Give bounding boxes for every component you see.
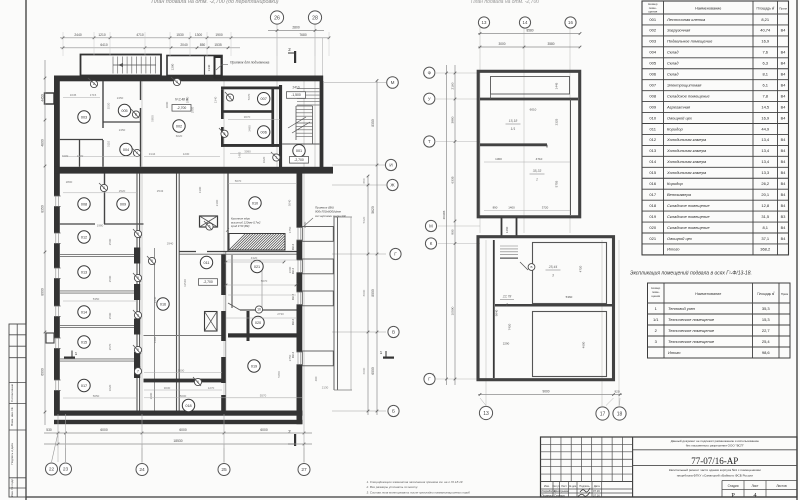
svg-text:005: 005 bbox=[649, 61, 656, 66]
svg-text:Коридор: Коридор bbox=[667, 181, 683, 186]
svg-text:В4: В4 bbox=[781, 29, 786, 33]
svg-text:3030: 3030 bbox=[164, 386, 171, 390]
svg-text:3. Состав пола монтировать по: 3. Состав пола монтировать после проклад… bbox=[367, 490, 471, 494]
svg-text:3: 3 bbox=[552, 274, 554, 278]
svg-text:В4: В4 bbox=[781, 149, 786, 153]
svg-text:5670: 5670 bbox=[247, 93, 251, 100]
svg-text:7: 7 bbox=[137, 369, 139, 373]
svg-text:13: 13 bbox=[482, 20, 487, 25]
svg-text:2940: 2940 bbox=[167, 242, 174, 246]
svg-text:1645: 1645 bbox=[70, 93, 77, 97]
svg-text:В4: В4 bbox=[781, 193, 786, 197]
svg-text:8000: 8000 bbox=[362, 289, 366, 296]
svg-text:Дата: Дата bbox=[594, 484, 600, 488]
svg-text:2450: 2450 bbox=[117, 96, 124, 100]
svg-text:020: 020 bbox=[649, 225, 656, 230]
svg-text:2410: 2410 bbox=[292, 86, 299, 90]
svg-text:20,1: 20,1 bbox=[761, 192, 770, 197]
svg-text:1210: 1210 bbox=[98, 33, 106, 37]
svg-text:3480: 3480 bbox=[248, 125, 252, 132]
svg-text:8350: 8350 bbox=[371, 119, 375, 127]
svg-text:2543: 2543 bbox=[157, 189, 164, 193]
svg-text:Экспликация помещений подвала: Экспликация помещений подвала в осях Г¹-… bbox=[630, 270, 752, 277]
svg-text:23: 23 bbox=[63, 467, 69, 473]
svg-text:015: 015 bbox=[81, 340, 87, 344]
svg-text:1900: 1900 bbox=[215, 33, 223, 37]
svg-text:9000: 9000 bbox=[542, 390, 549, 394]
svg-text:31,5: 31,5 bbox=[761, 214, 770, 219]
svg-text:530: 530 bbox=[46, 428, 52, 432]
svg-text:Б: Б bbox=[392, 409, 395, 414]
svg-text:6,1: 6,1 bbox=[762, 82, 768, 87]
svg-text:пищеблока ФГКУ «Санаторий «Бай: пищеблока ФГКУ «Санаторий «Байкал» ФСБ Р… bbox=[677, 473, 753, 477]
svg-text:13,4: 13,4 bbox=[761, 148, 770, 153]
svg-text:Изм.: Изм. bbox=[544, 484, 550, 488]
svg-text:2300: 2300 bbox=[149, 392, 153, 399]
svg-text:К: К bbox=[430, 241, 433, 246]
svg-text:-2,700: -2,700 bbox=[294, 158, 304, 162]
svg-text:3670: 3670 bbox=[244, 115, 251, 119]
svg-text:Складское помещение: Складское помещение bbox=[667, 214, 710, 219]
svg-text:5755: 5755 bbox=[555, 180, 559, 187]
svg-text:Техническое помещение: Техническое помещение bbox=[668, 317, 715, 322]
svg-text:1020: 1020 bbox=[262, 156, 266, 163]
svg-text:Холодильная камера: Холодильная камера bbox=[666, 159, 707, 164]
svg-text:1400: 1400 bbox=[303, 221, 307, 228]
svg-text:8,1: 8,1 bbox=[762, 72, 768, 77]
svg-text:1230: 1230 bbox=[183, 152, 190, 156]
svg-text:1300: 1300 bbox=[195, 33, 203, 37]
svg-text:В4: В4 bbox=[781, 73, 786, 77]
svg-text:Овощной цех: Овощной цех bbox=[667, 115, 693, 120]
svg-text:1270: 1270 bbox=[208, 386, 215, 390]
svg-text:25,44: 25,44 bbox=[548, 265, 558, 269]
svg-text:4710: 4710 bbox=[536, 157, 543, 161]
svg-text:008: 008 bbox=[649, 93, 656, 98]
svg-text:850: 850 bbox=[200, 43, 206, 47]
svg-text:009: 009 bbox=[649, 104, 656, 109]
svg-text:2160: 2160 bbox=[451, 82, 455, 89]
svg-text:1290: 1290 bbox=[171, 63, 175, 70]
svg-text:014: 014 bbox=[81, 310, 87, 314]
svg-text:Техническое помещение: Техническое помещение bbox=[668, 328, 715, 333]
svg-text:019: 019 bbox=[649, 214, 656, 219]
svg-text:В3: В3 bbox=[781, 215, 786, 219]
svg-text:ОК 2: ОК 2 bbox=[291, 318, 295, 325]
svg-text:Техническое помещение: Техническое помещение bbox=[668, 339, 715, 344]
svg-text:015: 015 bbox=[649, 170, 656, 175]
svg-text:22: 22 bbox=[49, 467, 55, 473]
svg-text:11540: 11540 bbox=[183, 279, 187, 287]
svg-text:007: 007 bbox=[261, 97, 267, 101]
svg-text:003: 003 bbox=[649, 39, 656, 44]
svg-text:Р: Р bbox=[731, 492, 735, 499]
svg-text:1980: 1980 bbox=[97, 224, 104, 228]
svg-text:2: 2 bbox=[505, 303, 508, 307]
svg-text:Холодильная камера: Холодильная камера bbox=[666, 137, 707, 142]
svg-text:14,5: 14,5 bbox=[761, 104, 770, 109]
svg-text:В4: В4 bbox=[781, 171, 786, 175]
svg-text:В4: В4 bbox=[781, 51, 786, 55]
svg-text:020: 020 bbox=[255, 321, 261, 325]
svg-text:-2,700: -2,700 bbox=[177, 106, 187, 110]
svg-text:17: 17 bbox=[600, 411, 606, 417]
svg-text:2500: 2500 bbox=[108, 275, 112, 282]
svg-text:В: В bbox=[392, 330, 395, 335]
svg-text:2190: 2190 bbox=[215, 199, 219, 206]
svg-text:1300: 1300 bbox=[198, 186, 202, 193]
svg-text:Итого: Итого bbox=[667, 247, 680, 252]
svg-text:3110: 3110 bbox=[107, 141, 111, 148]
svg-text:Коридор: Коридор bbox=[667, 126, 683, 131]
svg-text:4800: 4800 bbox=[40, 139, 44, 147]
svg-text:План подвала на отм. -2,700 (д: План подвала на отм. -2,700 (до переплан… bbox=[151, 0, 278, 5]
svg-text:Складское помещение: Складское помещение bbox=[667, 203, 710, 208]
svg-text:У: У bbox=[428, 96, 431, 101]
svg-text:014: 014 bbox=[649, 159, 656, 164]
svg-text:20965: 20965 bbox=[442, 210, 446, 219]
svg-text:6000: 6000 bbox=[371, 367, 375, 375]
svg-text:5600: 5600 bbox=[178, 369, 185, 373]
svg-text:003: 003 bbox=[81, 115, 87, 119]
svg-text:2. Все размеры уточнять по ме: 2. Все размеры уточнять по месту. bbox=[366, 485, 419, 489]
svg-text:3040: 3040 bbox=[288, 199, 292, 206]
svg-text:001: 001 bbox=[649, 17, 656, 22]
svg-text:2800: 2800 bbox=[292, 26, 300, 30]
svg-text:77-07/16-АР: 77-07/16-АР bbox=[691, 456, 738, 466]
svg-text:2325: 2325 bbox=[555, 118, 559, 125]
svg-text:6000: 6000 bbox=[362, 367, 366, 374]
svg-text:1/1: 1/1 bbox=[653, 317, 659, 322]
svg-text:6010: 6010 bbox=[530, 108, 537, 112]
svg-text:В4: В4 bbox=[781, 160, 786, 164]
svg-text:8350: 8350 bbox=[40, 205, 44, 213]
svg-text:7,6: 7,6 bbox=[762, 50, 768, 55]
svg-text:6000: 6000 bbox=[40, 368, 44, 376]
svg-text:368,2: 368,2 bbox=[760, 247, 771, 252]
svg-text:011: 011 bbox=[650, 126, 657, 131]
svg-text:016: 016 bbox=[160, 302, 166, 306]
svg-text:019: 019 bbox=[251, 364, 257, 368]
svg-text:006: 006 bbox=[649, 72, 656, 77]
svg-text:4710: 4710 bbox=[136, 33, 144, 37]
svg-text:Лист: Лист bbox=[561, 484, 567, 488]
svg-text:Сухинин: Сухинин bbox=[554, 493, 565, 497]
svg-text:Проверил: Проверил bbox=[542, 493, 554, 497]
svg-text:16,9: 16,9 bbox=[761, 115, 770, 120]
svg-text:Складское помещение: Складское помещение bbox=[667, 225, 710, 230]
svg-text:28: 28 bbox=[312, 15, 318, 21]
svg-text:Стадия: Стадия bbox=[728, 484, 739, 488]
svg-text:26,2: 26,2 bbox=[761, 181, 770, 186]
svg-text:3144: 3144 bbox=[149, 152, 156, 156]
svg-text:см чертежи марки КК: см чертежи марки КК bbox=[315, 214, 346, 218]
svg-text:1485: 1485 bbox=[238, 151, 242, 158]
svg-text:Подпись и дата: Подпись и дата bbox=[10, 443, 14, 465]
svg-text:1340: 1340 bbox=[207, 64, 211, 71]
svg-text:Склад: Склад bbox=[667, 50, 679, 55]
svg-text:18: 18 bbox=[617, 411, 623, 417]
svg-text:ОК 2: ОК 2 bbox=[291, 293, 295, 300]
svg-text:016: 016 bbox=[649, 181, 656, 186]
svg-text:5670: 5670 bbox=[235, 179, 242, 183]
svg-text:009: 009 bbox=[120, 202, 126, 206]
svg-text:9840: 9840 bbox=[495, 309, 499, 316]
svg-text:5650: 5650 bbox=[93, 394, 100, 398]
svg-text:Григорьева: Григорьева bbox=[554, 489, 569, 493]
svg-text:1460: 1460 bbox=[505, 226, 509, 233]
svg-text:2130: 2130 bbox=[322, 386, 329, 390]
svg-text:2520: 2520 bbox=[107, 102, 111, 109]
svg-text:Загрузочная: Загрузочная bbox=[667, 28, 691, 33]
svg-text:М: М bbox=[429, 224, 433, 229]
svg-text:Электрощитовая: Электрощитовая bbox=[667, 82, 702, 87]
svg-text:35,33: 35,33 bbox=[533, 169, 542, 173]
svg-text:2440: 2440 bbox=[74, 33, 82, 37]
svg-text:1530: 1530 bbox=[176, 33, 184, 37]
svg-text:8580: 8580 bbox=[526, 29, 533, 33]
svg-text:1535: 1535 bbox=[214, 43, 222, 47]
svg-text:3000: 3000 bbox=[498, 42, 505, 46]
svg-text:16,9: 16,9 bbox=[761, 39, 770, 44]
svg-text:008: 008 bbox=[81, 202, 87, 206]
svg-text:В4: В4 bbox=[781, 116, 786, 120]
svg-text:1000: 1000 bbox=[62, 154, 69, 158]
svg-text:001: 001 bbox=[296, 149, 302, 153]
svg-text:2800: 2800 bbox=[66, 180, 73, 184]
svg-text:7,8: 7,8 bbox=[762, 93, 768, 98]
svg-text:6000: 6000 bbox=[260, 428, 268, 432]
svg-text:2450: 2450 bbox=[119, 128, 126, 132]
svg-text:щения: щения bbox=[648, 9, 657, 13]
svg-text:Листов: Листов bbox=[776, 484, 787, 488]
svg-text:18530: 18530 bbox=[173, 439, 182, 443]
svg-text:5360: 5360 bbox=[566, 295, 573, 299]
svg-text:3090: 3090 bbox=[244, 149, 251, 153]
svg-text:Подвальное помещение: Подвальное помещение bbox=[667, 39, 713, 44]
svg-text:Инв. № подл.: Инв. № подл. bbox=[10, 478, 14, 497]
svg-text:И: И bbox=[389, 163, 392, 168]
svg-text:5570: 5570 bbox=[260, 394, 267, 398]
svg-text:Приямок для подъемника: Приямок для подъемника bbox=[230, 61, 270, 65]
svg-text:щения: щения bbox=[651, 294, 660, 298]
svg-text:План подвала на отм. -2,700: План подвала на отм. -2,700 bbox=[471, 0, 539, 5]
svg-text:880: 880 bbox=[362, 178, 366, 183]
svg-text:017: 017 bbox=[649, 192, 656, 197]
svg-text:13,4: 13,4 bbox=[761, 159, 770, 164]
svg-text:002: 002 bbox=[176, 124, 182, 128]
svg-text:40,74: 40,74 bbox=[760, 28, 771, 33]
svg-text:Подпись: Подпись bbox=[579, 484, 590, 488]
svg-text:018: 018 bbox=[649, 203, 656, 208]
svg-text:10: 10 bbox=[257, 308, 261, 312]
svg-text:25,4: 25,4 bbox=[762, 339, 771, 344]
svg-text:12,8: 12,8 bbox=[761, 203, 770, 208]
svg-text:021: 021 bbox=[254, 265, 260, 269]
svg-text:37,1: 37,1 bbox=[761, 236, 770, 241]
svg-text:3720: 3720 bbox=[542, 206, 549, 210]
svg-text:6,3: 6,3 bbox=[762, 61, 768, 66]
svg-text:1300: 1300 bbox=[495, 157, 502, 161]
svg-text:1715: 1715 bbox=[90, 93, 97, 97]
svg-text:Лист: Лист bbox=[752, 484, 759, 488]
svg-text:ОК 2: ОК 2 bbox=[291, 267, 295, 274]
svg-text:011: 011 bbox=[203, 261, 209, 265]
svg-text:-2,700: -2,700 bbox=[203, 280, 213, 284]
svg-text:4720: 4720 bbox=[579, 265, 583, 272]
svg-text:3580: 3580 bbox=[547, 42, 554, 46]
svg-text:Кол.уч: Кол.уч bbox=[552, 485, 560, 488]
svg-text:2520: 2520 bbox=[119, 189, 126, 193]
svg-text:2750: 2750 bbox=[288, 354, 292, 361]
svg-text:002: 002 bbox=[649, 28, 656, 33]
svg-text:1445: 1445 bbox=[555, 82, 559, 89]
svg-text:13: 13 bbox=[483, 411, 489, 417]
svg-text:26: 26 bbox=[274, 15, 280, 21]
svg-text:М: М bbox=[391, 80, 395, 85]
svg-text:Холодильная камера: Холодильная камера bbox=[666, 148, 707, 153]
svg-text:6000: 6000 bbox=[179, 428, 187, 432]
svg-text:24: 24 bbox=[139, 467, 145, 473]
svg-text:010: 010 bbox=[252, 201, 258, 205]
svg-text:без письменного разрешения ООО: без письменного разрешения ООО "ВСП" bbox=[686, 444, 744, 448]
svg-text:890: 890 bbox=[451, 229, 455, 234]
svg-text:Наименование: Наименование bbox=[695, 292, 721, 296]
svg-text:8,21: 8,21 bbox=[761, 17, 770, 22]
svg-text:5350: 5350 bbox=[93, 297, 100, 301]
svg-text:07.16: 07.16 bbox=[593, 489, 600, 493]
svg-text:22,7: 22,7 bbox=[762, 328, 771, 333]
svg-text:2500: 2500 bbox=[108, 238, 112, 245]
svg-text:2290: 2290 bbox=[503, 342, 510, 346]
svg-text:25: 25 bbox=[221, 467, 227, 473]
svg-text:1. Спецификацию элементов зап: 1. Спецификацию элементов заполнения про… bbox=[367, 480, 463, 484]
svg-text:Лестничная клетка: Лестничная клетка bbox=[666, 17, 706, 22]
svg-text:8000: 8000 bbox=[371, 289, 375, 297]
svg-text:004: 004 bbox=[123, 148, 129, 152]
svg-text:15,18: 15,18 bbox=[509, 119, 518, 123]
svg-text:13,4: 13,4 bbox=[761, 137, 770, 142]
svg-text:1/1: 1/1 bbox=[511, 127, 516, 131]
svg-text:16: 16 bbox=[568, 20, 573, 25]
svg-text:1480: 1480 bbox=[153, 336, 157, 343]
svg-text:7680: 7680 bbox=[299, 33, 307, 37]
svg-text:2600: 2600 bbox=[288, 266, 292, 273]
svg-text:Площадь м: Площадь м bbox=[756, 7, 774, 11]
svg-text:007: 007 bbox=[649, 82, 656, 87]
svg-text:6020: 6020 bbox=[176, 134, 183, 138]
svg-text:В4: В4 bbox=[781, 94, 786, 98]
svg-text:Площадь м: Площадь м bbox=[757, 292, 774, 296]
svg-text:В4: В4 bbox=[781, 226, 786, 230]
svg-text:017: 017 bbox=[81, 384, 87, 388]
svg-text:Складское помещение: Складское помещение bbox=[667, 93, 710, 98]
svg-text:ОК 2: ОК 2 bbox=[291, 243, 295, 250]
svg-text:4600: 4600 bbox=[582, 341, 586, 348]
svg-text:22,78: 22,78 bbox=[502, 295, 512, 299]
svg-text:1300: 1300 bbox=[77, 154, 84, 158]
svg-text:13,3: 13,3 bbox=[761, 170, 770, 175]
svg-text:Прим: Прим bbox=[779, 7, 787, 11]
svg-text:018: 018 bbox=[185, 404, 191, 408]
svg-text:Капитальный ремонт части здани: Капитальный ремонт части здания корпуса … bbox=[669, 468, 761, 472]
svg-text:5850: 5850 bbox=[150, 115, 154, 122]
svg-text:Овощной цех: Овощной цех bbox=[667, 236, 693, 241]
svg-text:6410: 6410 bbox=[100, 43, 108, 47]
svg-text:8000: 8000 bbox=[40, 288, 44, 296]
svg-text:-1,500: -1,500 bbox=[291, 93, 301, 97]
svg-text:В4: В4 bbox=[781, 237, 786, 241]
svg-text:В4: В4 bbox=[781, 83, 786, 87]
svg-text:400: 400 bbox=[314, 376, 318, 381]
svg-text:3000: 3000 bbox=[165, 101, 169, 108]
svg-text:Итого: Итого bbox=[668, 350, 681, 355]
svg-text:1: 1 bbox=[536, 178, 538, 182]
svg-text:Склад: Склад bbox=[667, 72, 679, 77]
svg-text:15,3: 15,3 bbox=[762, 317, 771, 322]
svg-text:Тепловой узел: Тепловой узел bbox=[668, 306, 696, 311]
svg-text:3880: 3880 bbox=[451, 116, 455, 123]
svg-text:1440: 1440 bbox=[153, 296, 157, 303]
svg-text:Данный документ не подлежит ра: Данный документ не подлежит размножению … bbox=[671, 439, 760, 443]
svg-text:Прим: Прим bbox=[781, 292, 788, 296]
svg-text:Агрегатная: Агрегатная bbox=[666, 104, 691, 109]
svg-text:98,6: 98,6 bbox=[762, 350, 771, 355]
svg-text:В4: В4 bbox=[781, 62, 786, 66]
svg-text:6335: 6335 bbox=[451, 176, 455, 183]
svg-text:В4: В4 bbox=[781, 204, 786, 208]
svg-text:010: 010 bbox=[649, 115, 656, 120]
svg-text:3620: 3620 bbox=[108, 384, 112, 391]
svg-text:1900: 1900 bbox=[186, 96, 190, 103]
svg-text:5620: 5620 bbox=[371, 206, 375, 214]
svg-text:44,9: 44,9 bbox=[761, 126, 770, 131]
svg-text:2570: 2570 bbox=[108, 343, 112, 350]
svg-text:В: В bbox=[530, 265, 532, 269]
svg-text:004: 004 bbox=[649, 50, 656, 55]
svg-text:Согласовано: Согласовано bbox=[10, 383, 14, 401]
svg-text:Наименование: Наименование bbox=[695, 7, 721, 11]
svg-text:7420: 7420 bbox=[508, 323, 512, 330]
svg-text:07.16: 07.16 bbox=[593, 493, 600, 497]
svg-text:4450: 4450 bbox=[40, 94, 44, 102]
svg-text:920: 920 bbox=[614, 390, 619, 394]
svg-text:5620: 5620 bbox=[362, 216, 366, 223]
svg-text:1905: 1905 bbox=[191, 106, 195, 113]
svg-text:013: 013 bbox=[81, 270, 87, 274]
svg-text:6000: 6000 bbox=[100, 428, 108, 432]
svg-text:Венткамера: Венткамера bbox=[667, 192, 692, 197]
svg-text:В4: В4 bbox=[781, 138, 786, 142]
svg-text:2730: 2730 bbox=[277, 312, 284, 316]
svg-text:ОК 2: ОК 2 bbox=[291, 351, 295, 358]
svg-text:В4: В4 bbox=[781, 105, 786, 109]
svg-text:27: 27 bbox=[301, 467, 307, 473]
svg-text:012: 012 bbox=[649, 137, 656, 142]
svg-text:006: 006 bbox=[261, 130, 267, 134]
svg-text:35,3: 35,3 bbox=[762, 306, 771, 311]
svg-text:2040: 2040 bbox=[180, 43, 188, 47]
svg-text:890: 890 bbox=[493, 206, 498, 210]
svg-text:1750: 1750 bbox=[288, 226, 292, 233]
svg-text:В4: В4 bbox=[781, 182, 786, 186]
svg-text:1400: 1400 bbox=[508, 206, 515, 210]
svg-text:Взам. инв. №: Взам. инв. № bbox=[10, 407, 14, 426]
svg-text:005: 005 bbox=[121, 109, 127, 113]
svg-text:Холодильная камера: Холодильная камера bbox=[666, 170, 707, 175]
svg-text:Склад: Склад bbox=[667, 61, 679, 66]
svg-text:5670: 5670 bbox=[261, 279, 268, 283]
